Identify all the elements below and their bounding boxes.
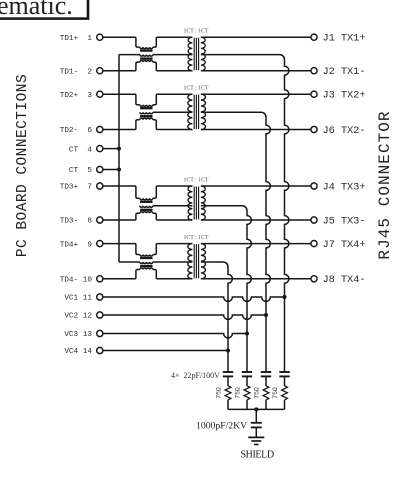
junction dot VC3 [245, 332, 249, 336]
pin 14 VC4 terminal circle [97, 347, 103, 353]
choke T4 center winding [140, 262, 153, 264]
choke T1 bottom winding [136, 62, 140, 71]
svg-text:1CT : 1CT: 1CT : 1CT [183, 86, 208, 92]
choke T3 bottom winding [136, 213, 140, 220]
choke T4 bottom winding [136, 270, 140, 279]
wire VC1&#160;11 pin to vertical [103, 297, 285, 301]
resistor R4 75 ohm zigzag [282, 386, 288, 400]
wire capacitor C1 to resistor R1 [227, 376, 229, 386]
wire transformer T4 secondary top to J pin [201, 243, 311, 245]
junction dot CT bus pin 5 [117, 168, 121, 172]
wire VC4&#160;14 pin to vertical [103, 350, 228, 352]
wire TD2- pin to choke T2 [103, 129, 136, 131]
wire choke T4 center to transformer primary center tap [153, 261, 193, 263]
svg-text:J4 TX3+: J4 TX3+ [323, 181, 366, 193]
svg-text:75Ω: 75Ω [235, 387, 242, 399]
choke T1 center winding [140, 55, 153, 57]
pin TD1+ terminal circle [97, 34, 103, 40]
ground symbol SHIELD [248, 436, 264, 438]
svg-text:J8 TX4-: J8 TX4- [323, 274, 366, 286]
pin TD1- terminal circle [97, 68, 103, 74]
wire choke T4 to transformer primary bottom [156, 278, 192, 280]
wire transformer T3 secondary center tap to VC vertical [201, 206, 247, 212]
wire choke T2 center to transformer primary center tap [153, 111, 193, 113]
wire transformer T2 secondary top to J pin [201, 93, 311, 95]
wire capacitor C2 to resistor R2 [246, 376, 248, 386]
wire resistor R3 to common bus [265, 400, 267, 410]
choke T4 top winding [136, 244, 140, 255]
wire transformer T2 secondary center tap to VC vertical [201, 112, 266, 118]
wire choke T3 to transformer primary top [156, 185, 192, 187]
svg-text:J7 TX4+: J7 TX4+ [323, 239, 366, 251]
pin J8 terminal circle [311, 276, 317, 282]
choke T3 center winding [140, 206, 153, 208]
pin 13 VC3 terminal circle [97, 330, 103, 336]
svg-text:75Ω: 75Ω [254, 387, 261, 399]
transformer T3 secondary winding [201, 186, 205, 220]
svg-text:J2 TX1-: J2 TX1- [323, 66, 366, 78]
pin J3 terminal circle [311, 91, 317, 97]
junction dot VC4 [226, 349, 230, 353]
svg-text:TD1- 2: TD1- 2 [60, 68, 93, 76]
wire VC vertical from T2 center tap down to capacitor [266, 118, 270, 372]
capacitor C2 22pF plates [242, 371, 252, 373]
pin J7 terminal circle [311, 241, 317, 247]
pin 5 CT terminal circle [97, 166, 103, 172]
transformer T4 core [193, 244, 195, 278]
svg-text:TD4- 10: TD4- 10 [60, 277, 93, 285]
choke T4 core bar upper [140, 257, 152, 259]
pin J2 terminal circle [311, 68, 317, 74]
transformer T1 secondary winding [201, 37, 205, 70]
svg-text:PC BOARD CONNECTIONS: PC BOARD CONNECTIONS [15, 74, 31, 257]
wire bus to high voltage capacitor [255, 409, 257, 422]
wire VC vertical from T3 center tap down to capacitor [247, 211, 251, 372]
junction dot VC2 [264, 313, 268, 317]
choke T3 core bar upper [140, 201, 152, 203]
wire TD3- pin to choke T3 [103, 219, 136, 221]
wire choke T3 center to transformer primary center tap [153, 205, 193, 207]
wire pin 5 to CT bus [103, 169, 119, 171]
svg-text:TD1+ 1: TD1+ 1 [60, 35, 93, 43]
wire transformer T1 secondary top to J pin [201, 36, 311, 38]
wire transformer T2 secondary bottom to J pin [201, 129, 311, 131]
wire choke T3 to transformer primary bottom [156, 219, 192, 221]
transformer T1 core [193, 38, 195, 70]
choke T2 center winding [140, 112, 153, 114]
wire transformer T3 secondary bottom to J pin [201, 219, 311, 221]
wire transformer T1 secondary bottom to J pin [201, 70, 311, 72]
transformer T4 secondary winding [201, 244, 206, 279]
wire common termination bus [228, 408, 285, 410]
choke T3 core bar lower [140, 209, 152, 211]
transformer T4 primary winding [188, 244, 193, 279]
svg-text:RJ45 CONNECTOR: RJ45 CONNECTOR [376, 110, 394, 259]
transformer T2 secondary winding [201, 94, 206, 129]
wire choke T1 to transformer primary bottom [156, 70, 192, 72]
pin TD2- terminal circle [97, 126, 103, 132]
svg-text:VC1 11: VC1 11 [64, 295, 92, 303]
svg-text:SHIELD: SHIELD [241, 449, 274, 460]
transformer T3 primary winding [188, 186, 192, 220]
junction dot common bus [254, 407, 258, 411]
choke T2 core bar lower [140, 115, 152, 117]
capacitor C3 22pF plates [261, 371, 271, 373]
svg-text:1000pF/2KV: 1000pF/2KV [196, 420, 247, 431]
pin J5 terminal circle [311, 217, 317, 223]
svg-text:75Ω: 75Ω [272, 387, 279, 399]
wire pin 4 to CT bus [103, 148, 119, 150]
pin 11 VC1 terminal circle [97, 294, 103, 300]
wire choke T1 to transformer primary top [156, 36, 192, 38]
wire transformer T1 secondary center tap to VC vertical [201, 55, 285, 61]
choke T2 top winding [136, 94, 140, 105]
pin J1 terminal circle [311, 34, 317, 40]
choke T1 core bar upper [140, 49, 152, 51]
svg-text:4× 22pF/100V: 4× 22pF/100V [171, 371, 220, 380]
wire resistor R4 to common bus [284, 400, 286, 410]
choke T2 bottom winding [136, 120, 140, 130]
wire CT bus to choke T1 center winding [119, 54, 140, 56]
svg-text:VC4 14: VC4 14 [64, 348, 92, 356]
pin J4 terminal circle [311, 183, 317, 189]
svg-text:1CT : 1CT: 1CT : 1CT [183, 235, 208, 241]
pin TD2+ terminal circle [97, 91, 103, 97]
pin TD3+ terminal circle [97, 183, 103, 189]
wire transformer T3 secondary top to J pin [201, 185, 311, 187]
capacitor C4 22pF plates [279, 371, 289, 373]
capacitor C1 22pF plates [223, 371, 233, 373]
transformer T3 core [193, 187, 195, 220]
wire choke T2 to transformer primary bottom [156, 129, 192, 131]
svg-text:J5 TX3-: J5 TX3- [323, 215, 366, 227]
svg-text:CT 5: CT 5 [69, 167, 92, 175]
transformer T2 primary winding [188, 94, 193, 129]
svg-text:VC2 12: VC2 12 [64, 313, 92, 321]
wire choke T4 to transformer primary top [156, 243, 192, 245]
wire TD4+ pin to choke T4 [103, 243, 136, 245]
svg-text:TD3- 8: TD3- 8 [60, 218, 93, 226]
wire VC vertical from T4 center tap down to capacitor [228, 268, 232, 373]
choke T4 core bar lower [140, 265, 152, 267]
pin TD4+ terminal circle [97, 241, 103, 247]
svg-text:TD2+ 3: TD2+ 3 [60, 92, 93, 100]
wire TD4- pin to choke T4 [103, 278, 136, 280]
choke T1 core bar lower [140, 57, 152, 59]
wire resistor R2 to common bus [246, 400, 248, 410]
wire resistor R1 to common bus [227, 400, 229, 410]
wire TD1+ pin to choke T1 [103, 36, 136, 38]
title box (partially cut off at top-left) [0, 0, 88, 19]
svg-text:TD3+ 7: TD3+ 7 [60, 184, 93, 192]
pin TD3- terminal circle [97, 217, 103, 223]
wire CT bus to choke T4 center winding [119, 261, 140, 263]
wire VC3&#160;13 pin to vertical [103, 334, 247, 338]
capacitor C5 1000pF/2KV plates [251, 422, 262, 424]
choke T3 top winding [136, 186, 140, 198]
svg-text:J6 TX2-: J6 TX2- [323, 125, 366, 137]
pin 12 VC2 terminal circle [97, 312, 103, 318]
wire TD1- pin to choke T1 [103, 70, 136, 72]
svg-text:TD4+ 9: TD4+ 9 [60, 241, 93, 249]
svg-text:1CT : 1CT: 1CT : 1CT [183, 177, 208, 183]
wire choke T1 center to transformer primary center tap [153, 54, 193, 56]
svg-text:ematic.: ematic. [0, 0, 73, 20]
node CT bus vertical wire [118, 55, 120, 262]
wire capacitor C4 to resistor R4 [284, 376, 286, 386]
wire TD2+ pin to choke T2 [103, 93, 136, 95]
svg-text:CT 4: CT 4 [69, 146, 92, 154]
svg-text:1CT : 1CT: 1CT : 1CT [183, 29, 208, 35]
junction dot CT bus pin 4 [117, 147, 121, 151]
svg-text:TD2- 6: TD2- 6 [60, 127, 93, 135]
choke T2 core bar upper [140, 107, 152, 109]
resistor R3 75 ohm zigzag [263, 386, 269, 400]
pin TD4- terminal circle [97, 276, 103, 282]
wire VC2&#160;12 pin to vertical [103, 315, 266, 319]
transformer T2 core [193, 95, 195, 129]
wire transformer T4 secondary bottom to J pin [201, 278, 311, 280]
svg-text:75Ω: 75Ω [216, 387, 223, 399]
resistor R1 75 ohm zigzag [225, 386, 231, 400]
wire capacitor C3 to resistor R3 [265, 376, 267, 386]
resistor R2 75 ohm zigzag [244, 386, 250, 400]
wire capacitor C5 to shield ground [255, 427, 257, 437]
wire transformer T4 secondary center tap to VC vertical [201, 262, 228, 268]
wire TD3+ pin to choke T3 [103, 185, 136, 187]
choke T1 top winding [136, 37, 140, 47]
pin 4 CT terminal circle [97, 146, 103, 152]
pin J6 terminal circle [311, 126, 317, 132]
wire VC vertical from T1 center tap down to capacitor [285, 60, 289, 372]
svg-text:J1 TX1+: J1 TX1+ [323, 33, 366, 45]
transformer T1 primary winding [188, 37, 192, 70]
wire choke T2 to transformer primary top [156, 93, 192, 95]
svg-text:J3 TX2+: J3 TX2+ [323, 90, 366, 102]
svg-text:VC3 13: VC3 13 [64, 331, 92, 339]
junction dot VC1 [283, 295, 287, 299]
